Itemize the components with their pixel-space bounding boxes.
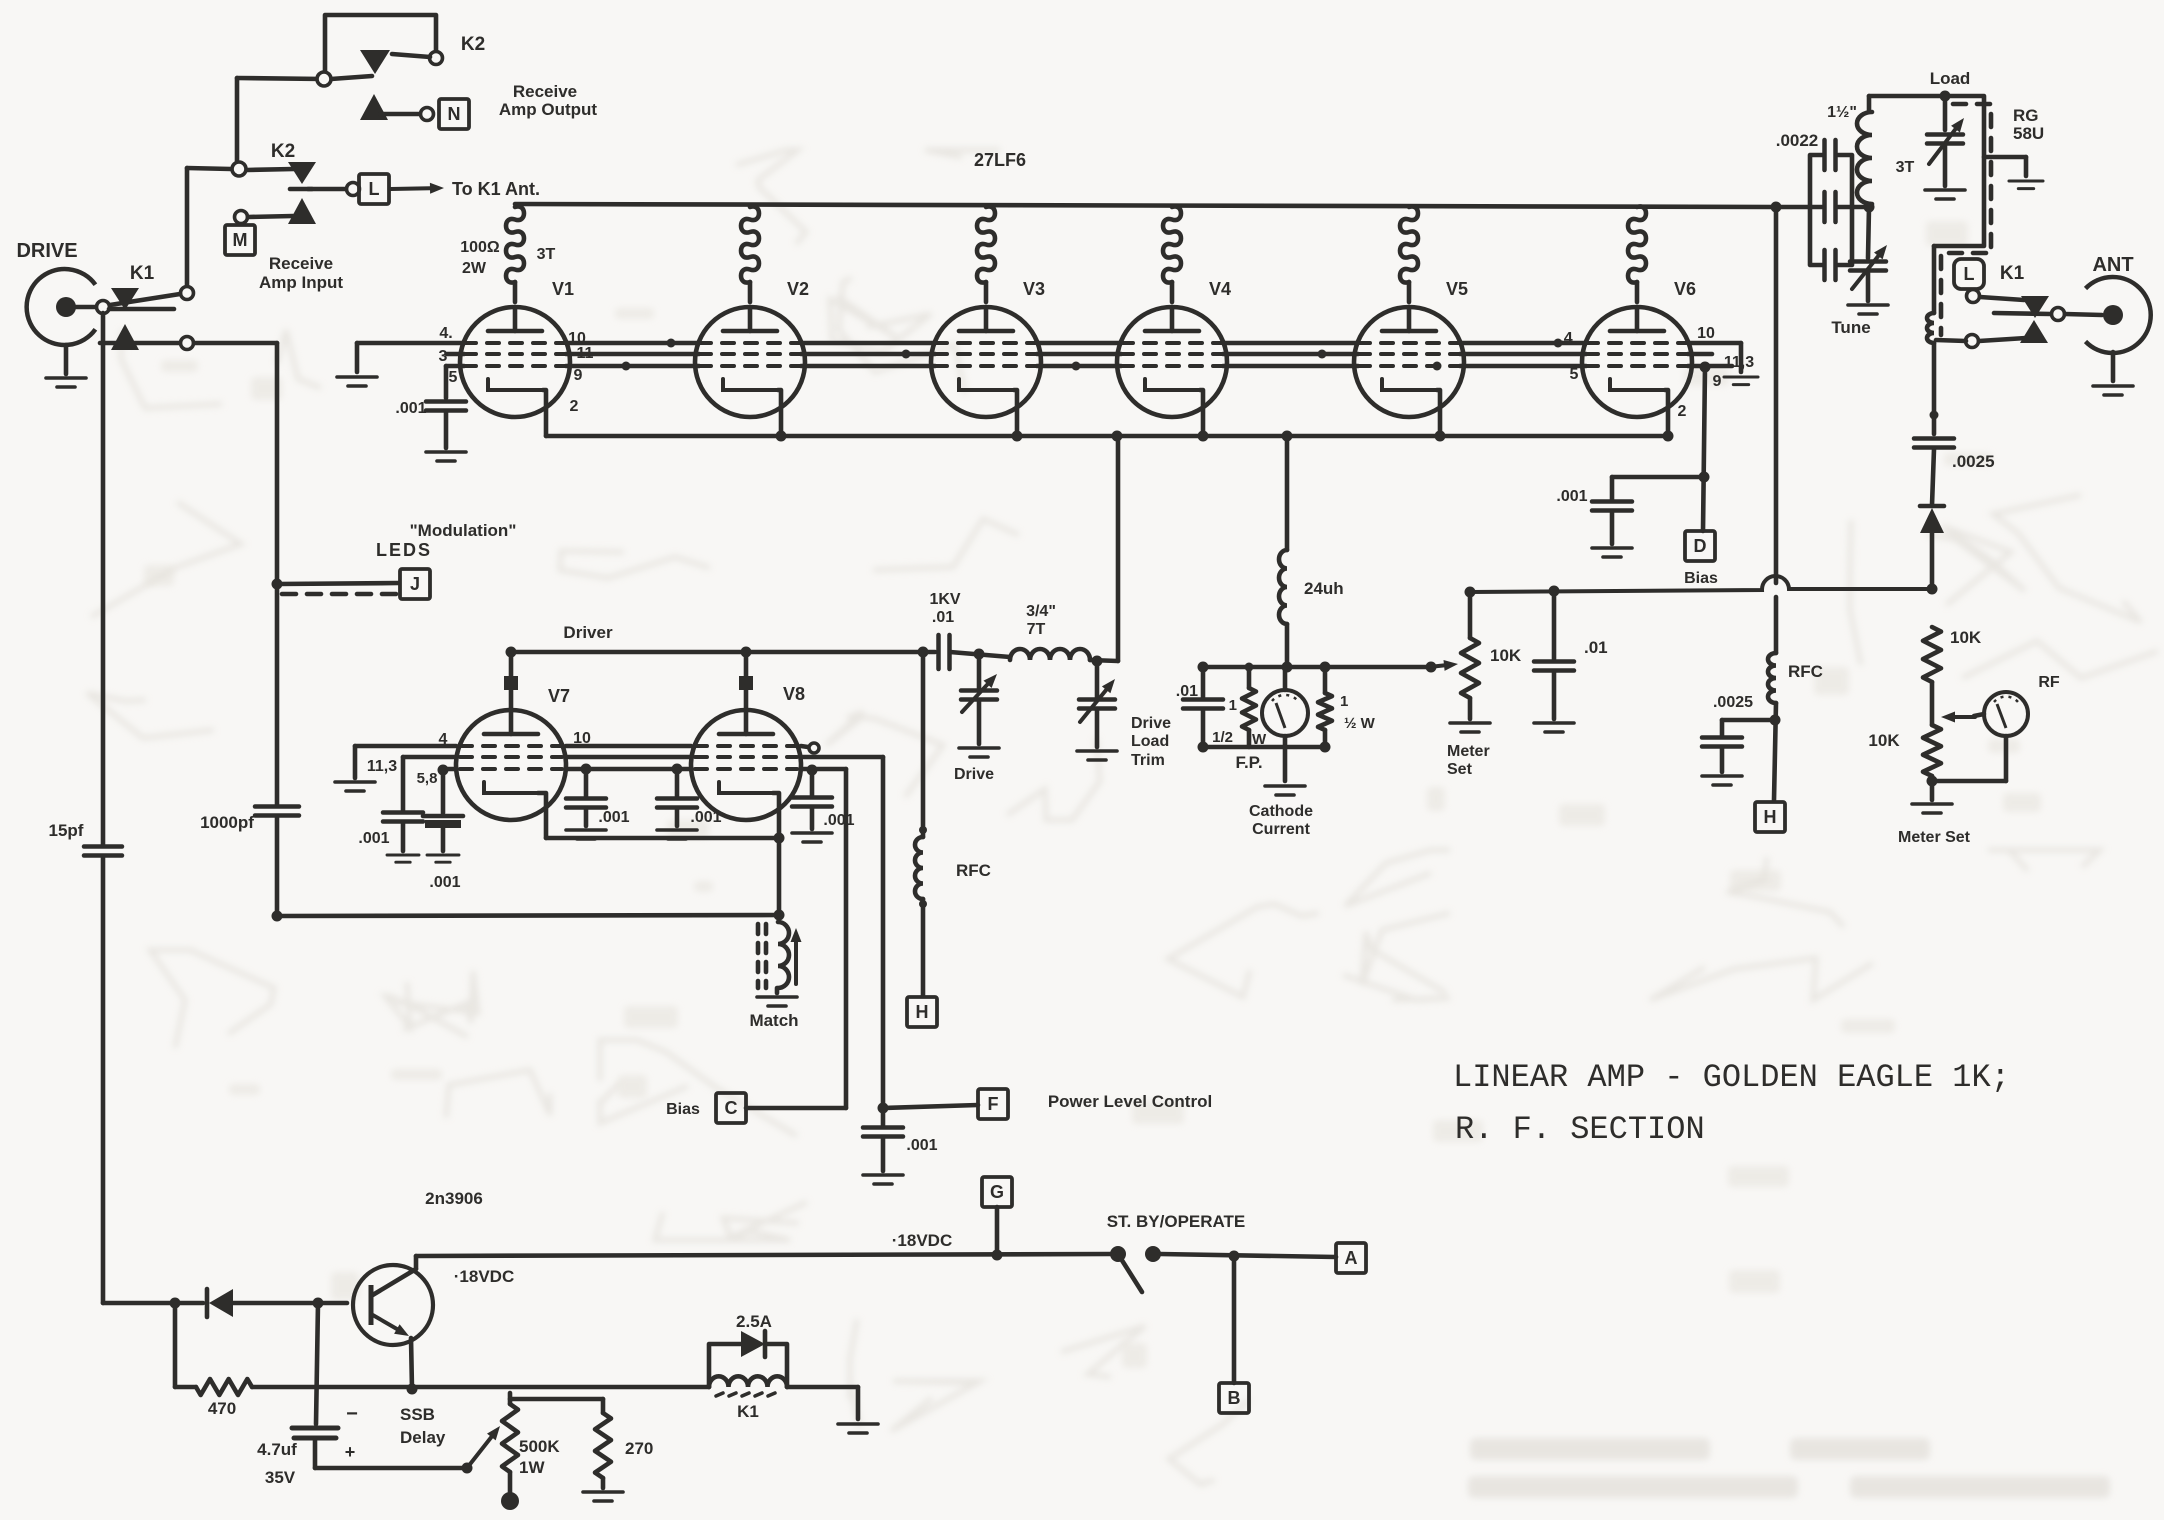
wire (175, 1385, 196, 1390)
svg-text:Meter: Meter (1447, 743, 1490, 760)
grid bus wire (1037, 352, 1121, 357)
bus wire (1776, 205, 1822, 210)
load top wire (1869, 94, 1941, 99)
junction (1930, 411, 1939, 420)
contact terminal circle (181, 287, 194, 300)
svg-text:.0025: .0025 (1713, 694, 1753, 711)
relay core hatch (716, 1393, 723, 1396)
junction (902, 350, 911, 359)
svg-text:ANT: ANT (2092, 254, 2133, 276)
svg-text:C: C (725, 1098, 738, 1118)
wire (1468, 592, 1473, 638)
wire to B (1232, 1256, 1237, 1383)
anode coil lead V6 (1635, 282, 1640, 302)
variable capacitor Load (1927, 135, 1963, 144)
wire (1943, 144, 1948, 186)
svg-text:Power Level Control: Power Level Control (1048, 1092, 1212, 1111)
svg-text:.001: .001 (395, 400, 426, 417)
capacitor 4.7uf electrolytic (292, 1426, 338, 1431)
svg-text:2.5A: 2.5A (736, 1312, 772, 1331)
junction (1282, 431, 1293, 442)
wire riser to cathode bus (1116, 436, 1121, 661)
wire (313, 1438, 318, 1468)
wire (1247, 730, 1252, 747)
svg-text:RF: RF (2038, 674, 2060, 691)
wire (315, 1466, 467, 1471)
wire (1936, 340, 1966, 341)
svg-text:Set: Set (1447, 761, 1473, 778)
svg-text:V4: V4 (1209, 279, 1231, 299)
svg-text:K1: K1 (737, 1402, 759, 1421)
wire (401, 757, 406, 811)
wire (175, 1301, 203, 1306)
wire (1932, 343, 1937, 434)
grid terminal circle (809, 743, 819, 753)
junction (776, 431, 787, 442)
junction (1012, 431, 1023, 442)
svg-text:.001: .001 (906, 1137, 937, 1154)
svg-text:·18VDC: ·18VDC (454, 1267, 514, 1286)
svg-text:Delay: Delay (400, 1428, 446, 1447)
svg-text:1000pf: 1000pf (200, 813, 254, 832)
svg-text:Drive: Drive (1131, 715, 1171, 732)
relay contact arrow up (288, 198, 316, 224)
junction (992, 1250, 1003, 1261)
svg-text:.001: .001 (429, 874, 460, 891)
terminal A (1336, 1243, 1366, 1273)
junction (1770, 715, 1781, 726)
plate feed wire (1774, 207, 1779, 583)
wire (441, 769, 446, 813)
wire (101, 313, 106, 845)
wire (248, 216, 293, 217)
svg-text:100Ω: 100Ω (460, 239, 500, 256)
wire (810, 807, 815, 829)
capacitor .01 (1183, 700, 1223, 709)
pin2 wire V5 (1437, 390, 1440, 436)
wire (1610, 477, 1615, 500)
wire (1867, 96, 1872, 112)
wire (187, 168, 231, 169)
capacitor 15pf (84, 847, 122, 856)
wire (995, 1207, 1000, 1255)
collector lead (371, 1269, 416, 1296)
wire (100, 341, 180, 346)
svg-text:−: − (346, 1403, 358, 1425)
wire (237, 78, 324, 79)
switch throw (1145, 1246, 1161, 1262)
junction (1864, 202, 1875, 213)
wire (235, 78, 240, 164)
svg-text:5,8: 5,8 (417, 770, 438, 787)
junction (1282, 662, 1293, 673)
svg-text:4.: 4. (439, 325, 452, 342)
ground (1592, 548, 1632, 557)
anode coil V5 (1400, 206, 1418, 282)
wiper arrow (1429, 660, 1458, 671)
svg-text:2: 2 (570, 398, 579, 415)
capacitor .001 feedthrough (423, 814, 463, 819)
svg-text:5: 5 (449, 369, 458, 386)
ground (1077, 751, 1117, 760)
grid bus wire (801, 341, 935, 346)
svg-text:10K: 10K (1490, 646, 1522, 665)
ground (757, 997, 797, 1006)
wire pin10 V6 (1688, 341, 1741, 346)
wire (2004, 736, 2009, 781)
wire (103, 1301, 170, 1306)
grid bus wire (1460, 364, 1586, 369)
top cap stem wire (509, 652, 514, 710)
wire (275, 343, 280, 805)
svg-text:Match: Match (749, 1011, 798, 1030)
driver bus wire (511, 650, 935, 655)
wire (308, 187, 347, 192)
junction (1699, 472, 1710, 483)
wire (1201, 667, 1206, 698)
relay K1 contact arm (111, 288, 139, 310)
wire to F (801, 755, 883, 760)
wire (233, 1301, 347, 1306)
wire (1980, 297, 2024, 300)
meter RF (1984, 692, 2028, 736)
resistor 1 1/2W (1242, 688, 1256, 730)
anode coil lead V5 (1407, 282, 1412, 302)
junction (1198, 662, 1209, 673)
wire to meter set pot (1325, 665, 1428, 670)
potentiometer 10K meter set (1461, 638, 1479, 698)
wire (921, 652, 926, 837)
ground (335, 782, 375, 791)
resistor 1 halfW (1318, 693, 1332, 730)
contact circle (1967, 290, 1980, 303)
svg-text:1½": 1½" (1827, 104, 1857, 121)
wire (316, 1303, 318, 1424)
terminal J (400, 569, 430, 599)
capacitor .001 (383, 813, 423, 822)
dashed wire to LEDS J (282, 592, 397, 597)
svg-text:K2: K2 (461, 34, 485, 55)
coax RG58U center wire (1934, 96, 1984, 246)
wire (1932, 246, 1937, 313)
svg-text:2W: 2W (462, 260, 487, 277)
capacitor .0025 (1702, 738, 1742, 747)
junction (438, 765, 449, 776)
wire (1095, 709, 1100, 747)
wire (1285, 624, 1290, 667)
wire (101, 857, 106, 1303)
grid bus wire (566, 352, 699, 357)
svg-text:V7: V7 (548, 686, 570, 706)
resistor 270 (595, 1413, 611, 1478)
junction (581, 764, 592, 775)
meter Cathode Current (1262, 690, 1308, 736)
svg-text:H: H (916, 1002, 929, 1022)
top cap nub (504, 676, 518, 690)
wire (1203, 745, 1325, 750)
junction (1320, 742, 1331, 753)
contact terminal circle (430, 52, 443, 65)
svg-text:Tune: Tune (1831, 318, 1870, 337)
svg-text:.001: .001 (823, 812, 854, 829)
svg-text:Cathode: Cathode (1249, 803, 1313, 820)
wire (1722, 718, 1775, 723)
relay contact arrow up (111, 324, 139, 350)
wire (277, 915, 779, 916)
ground (1534, 723, 1574, 732)
grid bus wire (1460, 352, 1586, 357)
tube V8 (691, 710, 801, 820)
junction (407, 1384, 418, 1395)
grid bus wire (1037, 341, 1121, 346)
junction (1465, 587, 1476, 598)
ground (792, 833, 832, 842)
relay coil loops (1927, 313, 1934, 343)
wire (1739, 343, 1744, 372)
svg-text:1W: 1W (519, 1458, 545, 1477)
-18VDC bus wire (416, 1254, 1110, 1256)
anode coil V3 (977, 206, 995, 282)
wiper arrow to meter (1941, 712, 1975, 723)
anode coil lead V1 (513, 282, 518, 302)
svg-text:11,3: 11,3 (367, 758, 397, 775)
svg-text:2: 2 (1678, 403, 1687, 420)
relay K2 upper contact arm (360, 50, 390, 74)
wire (1720, 747, 1725, 772)
wire (601, 1399, 606, 1413)
ground (1724, 377, 1758, 385)
ground (1925, 190, 1965, 199)
svg-text:ST. BY/OPERATE: ST. BY/OPERATE (1107, 1212, 1246, 1231)
variable capacitor Drive (961, 691, 997, 700)
svg-text:RFC: RFC (956, 861, 991, 880)
wire (441, 828, 446, 851)
junction (807, 765, 818, 776)
svg-text:.001: .001 (358, 830, 389, 847)
ground (583, 1492, 623, 1501)
tube V3 (931, 307, 1041, 417)
wire (746, 1106, 846, 1111)
svg-text:500K: 500K (519, 1437, 560, 1456)
junction (672, 764, 683, 775)
svg-text:R. F. SECTION: R. F. SECTION (1455, 1111, 1705, 1148)
junction (1112, 431, 1123, 442)
pin2 wire V7 (538, 793, 546, 838)
pin2 wire V4 (1200, 390, 1203, 436)
capacitor .001 (863, 1128, 903, 1137)
junction (1426, 662, 1437, 673)
wire (1247, 667, 1252, 688)
anode coil V6 (1628, 206, 1646, 282)
svg-text:V1: V1 (552, 279, 574, 299)
svg-text:Receive: Receive (513, 82, 577, 101)
ground (1450, 723, 1490, 732)
junction circle (317, 72, 331, 86)
junction (774, 833, 785, 844)
anode coil V4 (1163, 206, 1181, 282)
ground (427, 855, 459, 862)
junction (1700, 362, 1711, 373)
contact circle (181, 337, 194, 350)
svg-text:+: + (345, 1442, 356, 1462)
svg-text:V3: V3 (1023, 279, 1045, 299)
wire (883, 1105, 978, 1108)
grid bus wire (566, 364, 699, 369)
choke RFC driver (915, 837, 923, 899)
junction (1554, 339, 1563, 348)
contact circle (2052, 308, 2065, 321)
svg-text:L: L (369, 179, 380, 199)
wire (1283, 747, 1288, 781)
wire (1323, 730, 1328, 747)
relay K2 lower contact arm (288, 162, 316, 184)
variable capacitor Tune (1850, 262, 1886, 271)
svg-text:RFC: RFC (1788, 662, 1823, 681)
svg-text:1: 1 (1229, 697, 1237, 714)
svg-text:N: N (448, 104, 461, 124)
junction circle (232, 162, 246, 176)
variable arrow (1080, 679, 1115, 722)
wire (252, 1385, 709, 1390)
ground (1912, 804, 1952, 813)
wire (1468, 698, 1473, 719)
resistor 470 (196, 1379, 252, 1395)
junction (1318, 350, 1327, 359)
tube V5 (1354, 307, 1464, 417)
ground (863, 1175, 903, 1184)
wire (1974, 714, 1984, 716)
capacitor bank .0022 (1810, 155, 1823, 265)
junction (272, 579, 283, 590)
coax shield dashed (1941, 104, 1991, 335)
svg-text:.001: .001 (1556, 488, 1587, 505)
ground (426, 452, 466, 461)
connector ANT coax jack (2086, 277, 2151, 353)
tube V6 (1582, 307, 1692, 417)
wire (1203, 665, 1325, 670)
svg-text:2n3906: 2n3906 (425, 1189, 483, 1208)
match core dashed (756, 924, 761, 988)
grid bus wire (566, 744, 691, 749)
wire (675, 769, 680, 797)
capacitor .0022 section (1825, 192, 1836, 222)
svg-text:J: J (410, 574, 420, 594)
grid bus wire (801, 352, 935, 357)
wire (675, 808, 680, 826)
wire (110, 294, 180, 305)
switch pole (1110, 1246, 1126, 1262)
tube V1 (460, 307, 570, 417)
grid bus wire (1460, 341, 1586, 346)
match coil (778, 922, 789, 988)
relay contact arrow up (360, 94, 388, 120)
wire (353, 746, 358, 778)
svg-text:RG: RG (2013, 106, 2039, 125)
svg-text:Load: Load (1930, 69, 1971, 88)
wire K2 upper loop (325, 15, 436, 76)
svg-text:F.P.: F.P. (1235, 753, 1262, 772)
wire (977, 700, 982, 744)
wire (401, 822, 406, 851)
ground (838, 1424, 878, 1433)
contact circle (235, 211, 248, 224)
ground (46, 378, 86, 387)
arrow To K1 Ant (391, 183, 444, 194)
terminal H (1755, 802, 1785, 832)
svg-text:K2: K2 (271, 141, 295, 162)
junction (1198, 742, 1209, 753)
junction (313, 1298, 324, 1309)
junction (741, 647, 752, 658)
svg-text:K1: K1 (130, 263, 155, 284)
junction (974, 649, 985, 660)
junction (1940, 91, 1951, 102)
wire pin5,8 (443, 767, 456, 772)
capacitor .0025 antenna (1914, 439, 1954, 448)
svg-text:10K: 10K (1868, 731, 1900, 750)
anode coil lead V2 (748, 282, 753, 302)
wire (775, 988, 780, 993)
wire to C (844, 769, 849, 1108)
anode coil lead V4 (1170, 282, 1175, 302)
grid bus wire (566, 341, 699, 346)
svg-text:"Modulation": "Modulation" (410, 521, 517, 540)
pin2 wire V6 (1665, 390, 1668, 436)
emitter lead with arrow (371, 1314, 409, 1336)
junction (1771, 202, 1782, 213)
wire (2111, 352, 2116, 381)
wire (1774, 703, 1776, 800)
junction (1245, 663, 1254, 672)
junction (1229, 1251, 1240, 1262)
svg-text:58U: 58U (2013, 124, 2044, 143)
junction (774, 910, 785, 921)
grid bus wire (1223, 352, 1358, 357)
wire (2065, 314, 2102, 315)
capacitor .01 1KV (939, 635, 950, 669)
wire (1930, 682, 1935, 725)
wire (777, 838, 782, 915)
wire to C (801, 767, 846, 772)
wire (1283, 736, 1288, 747)
wire (64, 345, 69, 374)
svg-text:27LF6: 27LF6 (974, 150, 1026, 170)
ground (2009, 181, 2043, 189)
tube V2 (695, 307, 805, 417)
junction (506, 647, 517, 658)
wire (787, 1385, 858, 1390)
wire (76, 305, 97, 310)
wire (508, 1393, 513, 1404)
terminal dot (501, 1492, 519, 1510)
wire relay pole (109, 307, 174, 312)
coil end (919, 900, 927, 908)
svg-text:7T: 7T (1027, 621, 1046, 638)
wire (275, 817, 280, 916)
terminal B (1219, 1383, 1249, 1413)
coil end (919, 826, 927, 834)
wire (1090, 660, 1118, 661)
svg-text:Receive: Receive (269, 254, 333, 273)
wire (1323, 667, 1328, 693)
svg-text:3: 3 (439, 348, 448, 365)
wire (194, 341, 277, 346)
ground (337, 377, 377, 386)
tube V7 (456, 710, 566, 820)
grid bus wire (1037, 364, 1121, 369)
wire to K2 upper contact (392, 54, 430, 57)
capacitor .0022 section (1825, 140, 1836, 170)
